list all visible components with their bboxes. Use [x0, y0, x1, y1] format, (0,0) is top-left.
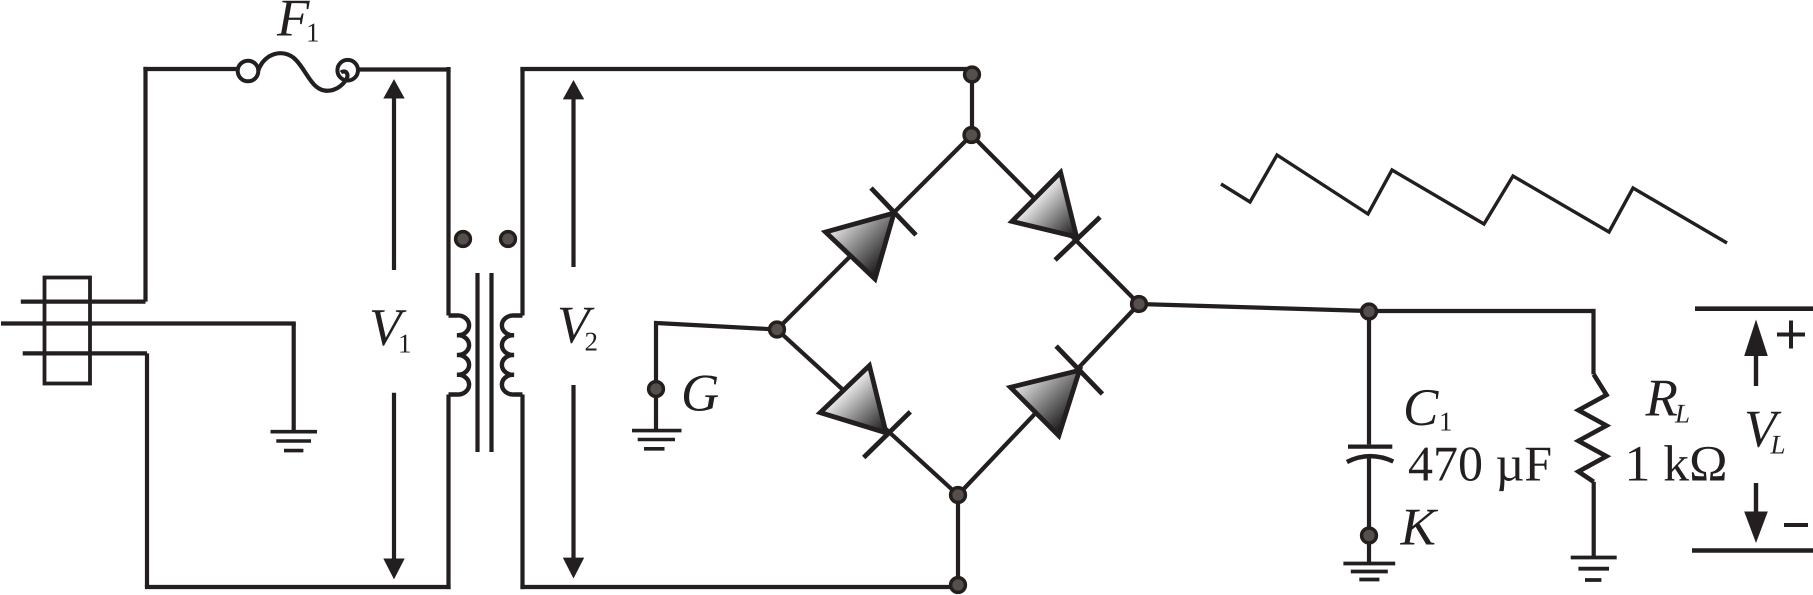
node K: [1362, 528, 1377, 543]
node: secondary top corner: [965, 67, 980, 82]
svg-text:L: L: [1674, 398, 1690, 428]
ground symbol (node G): [632, 429, 682, 433]
ground symbol (node K): [1343, 562, 1395, 566]
wire bridge left node to G: [656, 323, 777, 389]
arrow V1 (double headed): [383, 79, 404, 579]
wire transformer secondary lead: [520, 67, 524, 589]
plug P1 middle prong: [1, 321, 296, 325]
node: bridge left: [770, 322, 785, 337]
svg-text:R: R: [1645, 369, 1678, 427]
bridge edge bottom-left: [777, 330, 958, 496]
wire secondary bottom to bridge: [520, 585, 958, 589]
diode D4 (bridge bottom-right): [1010, 346, 1102, 436]
capacitor C1 bottom plate (curved): [1347, 456, 1393, 462]
wire top left (plug to fuse): [143, 67, 238, 71]
wire bottom (primary loop): [145, 585, 451, 589]
ripple waveform: [1221, 155, 1727, 243]
wire capacitor to K: [1367, 454, 1371, 536]
node: capacitor top junction: [1362, 304, 1377, 319]
svg-text:1: 1: [306, 18, 320, 48]
node: bottom wire junction: [951, 578, 966, 593]
svg-text:G: G: [681, 364, 719, 422]
wire down to resistor: [1591, 309, 1595, 375]
svg-text:L: L: [1770, 430, 1786, 460]
wire transformer primary lead: [446, 67, 450, 589]
wire G to ground: [654, 389, 658, 430]
wire neutral to ground: [292, 324, 296, 431]
wire primary left vertical: [143, 67, 147, 302]
diode D3 (bridge bottom-left): [820, 366, 910, 458]
wire resistor to ground: [1592, 482, 1596, 557]
svg-text:K: K: [1400, 499, 1439, 557]
wire bridge right node to load: [1139, 304, 1594, 311]
wire capacitor top: [1367, 311, 1371, 444]
resistor RL zigzag: [1578, 374, 1606, 481]
plus sign: [1777, 321, 1805, 349]
wire plug bottom vertical: [145, 353, 149, 587]
minus sign: [1784, 523, 1808, 527]
wire top right (fuse to transformer primary): [358, 67, 451, 71]
wire down to bridge top node: [970, 69, 974, 135]
svg-text:470 µF: 470 µF: [1408, 436, 1552, 492]
svg-text:2: 2: [585, 327, 599, 357]
ground symbol (mains neutral): [271, 430, 318, 434]
transformer polarity dot primary: [456, 232, 471, 247]
ground symbol (RL): [1571, 556, 1617, 560]
VL down arrow: [1744, 483, 1768, 543]
svg-text:1 kΩ: 1 kΩ: [1625, 437, 1728, 493]
arrow V2 (double headed): [563, 80, 584, 579]
plug P1 bottom prong: [23, 351, 147, 355]
bridge edge top-left: [777, 135, 972, 330]
transformer polarity dot secondary: [501, 232, 516, 247]
svg-text:1: 1: [398, 329, 412, 359]
plug P1 body: [45, 278, 91, 384]
svg-text:1: 1: [1439, 407, 1453, 437]
transformer primary winding: [449, 315, 470, 394]
diode D1 (bridge top-right): [1012, 172, 1100, 260]
transformer core: [478, 273, 492, 452]
svg-text:C: C: [1403, 379, 1439, 437]
fuse F1: [238, 53, 358, 91]
wire secondary top to bridge: [520, 67, 972, 71]
VL up arrow: [1744, 320, 1768, 387]
bridge edge top-right: [972, 135, 1140, 304]
bridge edge bottom-right: [958, 304, 1139, 495]
plug P1 top prong: [21, 300, 146, 304]
VL bracket bottom bar: [1692, 548, 1813, 553]
svg-text:F: F: [276, 0, 310, 48]
capacitor C1 top plate: [1348, 445, 1392, 449]
node G: [649, 382, 664, 397]
diode D2 (bridge top-left): [826, 188, 917, 279]
node: bridge top: [964, 128, 979, 143]
transformer secondary winding: [502, 315, 523, 394]
node: bridge right: [1132, 297, 1147, 312]
VL bracket top bar: [1695, 306, 1813, 311]
wire K to ground: [1367, 536, 1371, 563]
wire up to bridge bottom node: [956, 495, 960, 587]
node: bridge bottom: [951, 488, 966, 503]
